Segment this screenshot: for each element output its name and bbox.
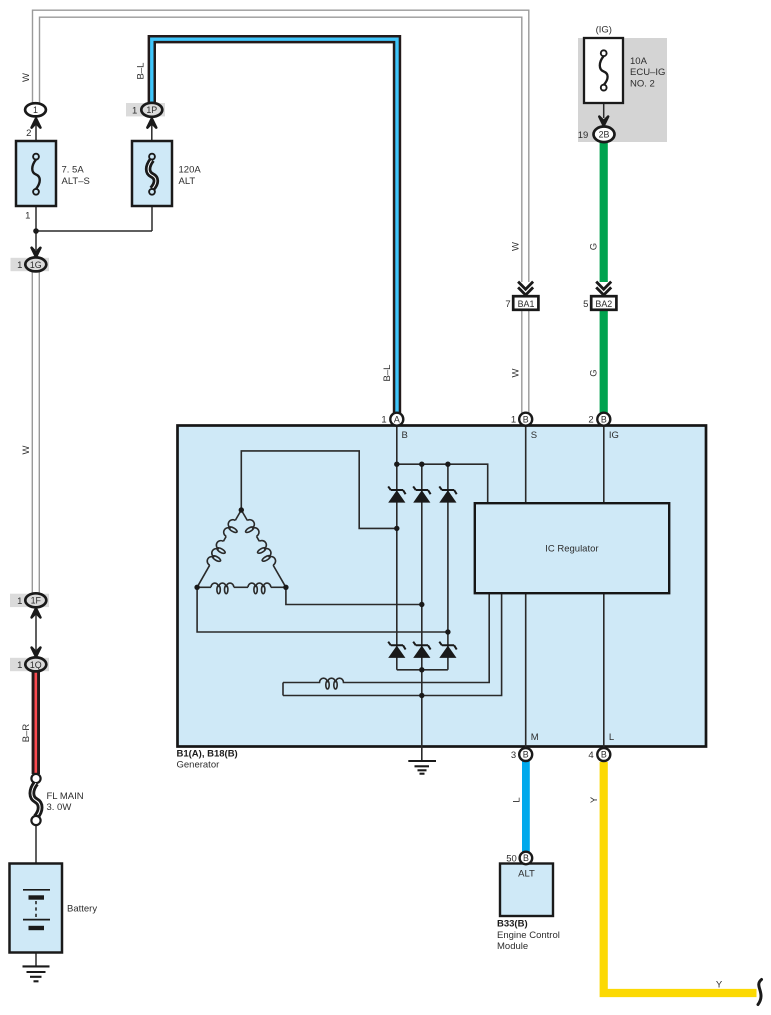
svg-text:ALT–S: ALT–S	[62, 176, 90, 187]
svg-text:FL MAIN: FL MAIN	[47, 791, 84, 802]
svg-text:10A: 10A	[630, 56, 648, 67]
svg-text:ECU–IG: ECU–IG	[630, 67, 665, 78]
svg-text:(IG): (IG)	[596, 25, 612, 36]
svg-text:ALT: ALT	[179, 176, 196, 187]
svg-text:4: 4	[588, 750, 593, 761]
svg-text:1: 1	[25, 211, 30, 222]
svg-text:S: S	[531, 430, 537, 441]
svg-text:B: B	[601, 414, 607, 424]
svg-text:W: W	[510, 368, 521, 377]
svg-text:2: 2	[26, 128, 31, 139]
svg-text:B33(B): B33(B)	[497, 919, 528, 930]
svg-text:B1(A), B18(B): B1(A), B18(B)	[177, 749, 238, 760]
svg-text:NO. 2: NO. 2	[630, 78, 655, 89]
svg-text:1: 1	[132, 105, 137, 116]
svg-text:1P: 1P	[146, 105, 157, 115]
svg-text:IG: IG	[609, 430, 619, 441]
svg-text:2B: 2B	[599, 130, 610, 140]
svg-text:B–L: B–L	[382, 365, 393, 382]
svg-text:W: W	[510, 242, 521, 251]
svg-text:1: 1	[17, 596, 22, 607]
svg-text:Y: Y	[716, 980, 723, 991]
svg-text:B: B	[402, 430, 408, 441]
svg-text:1: 1	[17, 260, 22, 271]
svg-text:3: 3	[511, 750, 516, 761]
svg-text:IC Regulator: IC Regulator	[545, 544, 598, 555]
svg-text:B: B	[523, 750, 529, 760]
svg-text:G: G	[589, 243, 600, 250]
svg-text:W: W	[21, 73, 32, 82]
svg-text:ALT: ALT	[518, 869, 535, 880]
svg-text:7. 5A: 7. 5A	[62, 164, 85, 175]
svg-text:2: 2	[588, 415, 593, 426]
svg-text:7: 7	[505, 299, 510, 310]
svg-text:120A: 120A	[179, 164, 202, 175]
svg-text:1F: 1F	[31, 596, 42, 606]
svg-text:M: M	[531, 732, 539, 743]
svg-text:Engine Control: Engine Control	[497, 930, 560, 941]
svg-text:BA1: BA1	[518, 299, 535, 309]
svg-text:3. 0W: 3. 0W	[47, 802, 72, 813]
svg-text:19: 19	[578, 130, 589, 141]
svg-text:BA2: BA2	[595, 299, 612, 309]
svg-text:L: L	[512, 797, 523, 802]
svg-text:B: B	[523, 853, 529, 863]
svg-text:Y: Y	[589, 796, 600, 803]
svg-text:1G: 1G	[30, 260, 42, 270]
svg-text:50: 50	[506, 854, 517, 865]
svg-text:L: L	[609, 732, 614, 743]
svg-text:1: 1	[511, 415, 516, 426]
svg-text:Module: Module	[497, 941, 528, 952]
svg-text:5: 5	[583, 299, 588, 310]
svg-text:G: G	[589, 369, 600, 376]
svg-text:B–R: B–R	[21, 724, 32, 743]
svg-text:Battery: Battery	[67, 904, 97, 915]
svg-text:1: 1	[17, 660, 22, 671]
svg-text:1: 1	[381, 415, 386, 426]
svg-text:W: W	[21, 445, 32, 454]
svg-text:B: B	[601, 750, 607, 760]
svg-text:1: 1	[33, 105, 38, 115]
svg-text:B: B	[523, 414, 529, 424]
svg-text:1Q: 1Q	[30, 660, 42, 670]
svg-text:B–L: B–L	[136, 63, 147, 80]
svg-text:Generator: Generator	[177, 760, 220, 771]
svg-text:A: A	[394, 414, 400, 424]
